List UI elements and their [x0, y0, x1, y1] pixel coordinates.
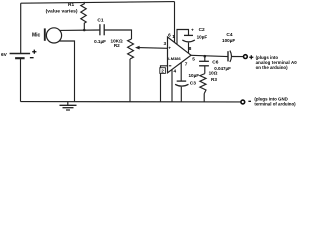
svg-text:1: 1: [172, 34, 175, 40]
op-amp U1 LM386 body: [168, 37, 192, 73]
capacitor C4 curved plate: [230, 51, 232, 62]
potentiometer R2 resistive element: [128, 39, 134, 59]
capacitor C4 positive plate: [227, 51, 229, 61]
ground symbol: [60, 102, 77, 110]
svg-text:Mic: Mic: [32, 33, 41, 39]
capacitor C6 top plate: [199, 60, 209, 62]
battery B1 negative plate: [15, 57, 25, 59]
svg-text:+: +: [168, 46, 171, 51]
ground terminal to arduino GND: [241, 100, 245, 104]
svg-text:C3: C3: [190, 81, 196, 87]
wire pin 2 to rail: [161, 66, 168, 102]
op-amp inverting minus sign: [169, 65, 172, 67]
wire C4 to output terminal: [232, 56, 243, 58]
svg-text:10µF: 10µF: [197, 34, 208, 39]
svg-text:LM386: LM386: [168, 56, 181, 61]
label battery minus: [30, 57, 34, 59]
capacitor C1 left plate: [99, 24, 101, 35]
wire pin 1 to C2: [177, 30, 189, 45]
svg-text:2: 2: [161, 69, 164, 74]
svg-text:0.1µF: 0.1µF: [94, 39, 106, 44]
svg-text:R2: R2: [114, 43, 120, 48]
wire C2 to pin 8: [188, 43, 190, 54]
wire R2 bottom to rail: [129, 59, 131, 102]
capacitor C2 positive plate: [184, 34, 193, 36]
potentiometer R2 wiper arrow: [135, 46, 140, 50]
svg-text:+: +: [191, 28, 194, 33]
svg-text:3: 3: [164, 41, 167, 46]
junction dot R1 bottom: [83, 29, 86, 32]
wire output junction to C6: [204, 56, 206, 61]
svg-text:10µF: 10µF: [189, 73, 200, 78]
svg-text:terminal of arduino): terminal of arduino): [254, 102, 296, 107]
battery B1 positive plate: [10, 53, 31, 55]
wire pin 5 output: [191, 55, 228, 56]
label output plus: [249, 55, 253, 59]
wire pin 7 to C3: [180, 63, 182, 81]
wire pin 4 to rail: [171, 70, 173, 102]
output terminal to arduino analog: [244, 55, 248, 59]
resistor R1: [81, 2, 86, 30]
svg-text:7: 7: [185, 62, 188, 67]
svg-text:6: 6: [168, 32, 171, 37]
svg-text:C6: C6: [212, 60, 218, 66]
capacitor C6 bottom plate: [199, 65, 209, 67]
svg-text:on the arduino): on the arduino): [256, 65, 288, 70]
wire mic output to C1: [60, 29, 100, 31]
capacitor C1 right plate: [103, 24, 105, 35]
svg-text:100µF: 100µF: [222, 38, 235, 43]
svg-text:R3: R3: [211, 77, 217, 82]
wire C1 to R2 top: [104, 30, 131, 39]
wire C3 to rail: [180, 87, 182, 102]
wire battery negative to bottom rail: [20, 58, 22, 101]
label ground minus: [248, 100, 251, 102]
wire left rail: [20, 3, 22, 53]
wire C6 to R3: [204, 66, 206, 74]
pin number 2 box: [160, 68, 166, 74]
microphone Mic diaphragm bar: [44, 28, 46, 40]
wire R2 wiper to pin 3: [139, 47, 168, 50]
wire bottom ground rail: [21, 101, 241, 103]
label battery +: [32, 50, 36, 54]
svg-text:R1: R1: [68, 2, 74, 8]
capacitor C3 top plate: [177, 80, 187, 82]
resistor R3: [200, 74, 206, 94]
svg-text:4: 4: [174, 68, 177, 73]
svg-text:C1: C1: [97, 17, 103, 23]
junction dot output node: [204, 55, 207, 58]
wire pin 6 to top rail: [174, 2, 176, 43]
svg-text:8: 8: [189, 46, 192, 51]
wire mic ground side: [59, 41, 75, 102]
capacitor C2 curved plate: [182, 40, 195, 42]
capacitor C3 curved plate: [175, 84, 188, 86]
svg-text:C2: C2: [199, 27, 205, 33]
svg-text:5: 5: [192, 57, 195, 62]
wire top rail: [21, 2, 175, 4]
svg-text:(value varies): (value varies): [46, 8, 78, 14]
wire R3 to rail: [203, 94, 205, 102]
svg-text:6V: 6V: [1, 52, 8, 58]
microphone Mic body: [46, 28, 61, 43]
svg-text:10Ω: 10Ω: [209, 71, 218, 76]
